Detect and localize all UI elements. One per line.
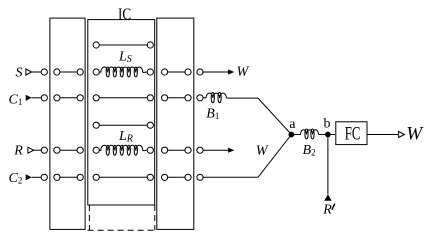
svg-text:C1: C1 <box>9 93 23 108</box>
svg-text:C2: C2 <box>9 171 23 186</box>
wire: node b to FC box <box>328 134 335 136</box>
left block contact pair <box>54 95 60 101</box>
output terminal circle <box>197 174 203 180</box>
input arrow C1 (filled triangle) <box>26 95 32 101</box>
output terminal circle <box>197 147 203 153</box>
IC block dashed extension right side <box>154 205 156 230</box>
input arrow S (open triangle) <box>26 69 32 75</box>
wire: B1 to junction <box>226 97 258 99</box>
IC block dashed extension left side <box>88 205 90 230</box>
svg-text:B1: B1 <box>206 106 219 121</box>
output arrow W (open triangle) <box>399 132 405 138</box>
wire: R input lead <box>34 149 42 151</box>
svg-text:W: W <box>406 123 424 144</box>
block FC <box>336 122 367 145</box>
wire: FC output <box>367 134 398 136</box>
svg-text:IC: IC <box>118 4 131 23</box>
right block contact pair <box>162 69 168 75</box>
node b (junction dot) <box>325 132 331 138</box>
output terminal circle <box>197 69 203 75</box>
right block contact pair <box>162 174 168 180</box>
right contact block rectangle <box>157 18 194 229</box>
wire: diagonal from C2 up to node a <box>258 135 291 178</box>
wire: C1 input lead <box>32 97 42 99</box>
svg-text:R: R <box>13 144 23 159</box>
IC inner contact pair <box>93 42 99 48</box>
output terminal circle <box>197 95 203 101</box>
inductor LS <box>93 69 99 75</box>
left block contact pair <box>54 69 60 75</box>
wire: diagonal from B1 down to node a <box>258 98 291 134</box>
svg-text:LR: LR <box>118 129 133 145</box>
IC inner contact pair <box>93 95 99 101</box>
svg-text:LS: LS <box>118 49 132 65</box>
IC inner contact pair <box>93 122 99 128</box>
svg-text:a: a <box>289 117 296 132</box>
svg-text:W: W <box>256 143 269 159</box>
right block contact pair <box>162 147 168 153</box>
left contact block rectangle <box>50 18 85 229</box>
svg-text:R: R <box>322 202 332 217</box>
wire: S output with arrow <box>203 71 229 73</box>
wire: C2 input lead <box>32 176 42 178</box>
IC inner contact pair <box>93 174 99 180</box>
wire: R output with arrow <box>203 149 229 151</box>
input arrow R-prime (filled triangle up) <box>324 194 331 201</box>
left block contact pair <box>54 147 60 153</box>
svg-text:W: W <box>237 64 250 80</box>
IC block rectangle (solid part) <box>88 20 155 205</box>
input arrow R (open triangle) <box>28 147 34 153</box>
wire: S input lead <box>32 71 42 73</box>
node C1 input terminal circle <box>41 95 47 101</box>
node R input terminal circle <box>41 147 47 153</box>
left block contact pair <box>54 174 60 180</box>
node C2 input terminal circle <box>41 174 47 180</box>
inductor B2 <box>291 134 300 136</box>
node a (junction dot) <box>289 132 295 138</box>
node S input terminal circle <box>41 69 47 75</box>
inductor LR <box>93 147 99 153</box>
wire: node b down to R-prime <box>327 135 329 195</box>
right block contact pair <box>162 95 168 101</box>
svg-text:B2: B2 <box>303 143 316 158</box>
inductor B1 <box>203 97 206 99</box>
input arrow C2 (filled triangle) <box>26 174 32 180</box>
IC block dashed extension bottom <box>88 229 157 231</box>
wire: C2 output horizontal <box>203 176 258 178</box>
svg-text:b: b <box>324 117 331 132</box>
svg-text:FC: FC <box>345 123 361 144</box>
svg-text:S: S <box>16 66 23 81</box>
